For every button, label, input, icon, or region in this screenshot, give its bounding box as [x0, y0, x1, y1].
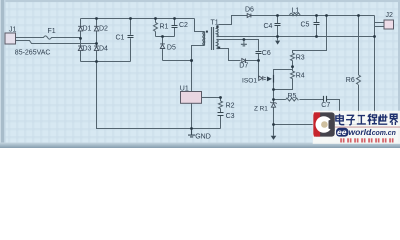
svg-text:C5: C5 — [301, 22, 310, 29]
svg-text:ISO1: ISO1 — [242, 78, 257, 85]
svg-text:C4: C4 — [264, 23, 273, 30]
svg-text:J1: J1 — [9, 27, 17, 34]
svg-text:C6: C6 — [262, 50, 271, 57]
svg-text:D3: D3 — [83, 46, 92, 53]
svg-text:R6: R6 — [346, 77, 355, 84]
svg-text:D5: D5 — [167, 44, 176, 51]
svg-text:ee: ee — [337, 127, 347, 137]
svg-text:D6: D6 — [245, 7, 254, 14]
svg-text:.com.cn: .com.cn — [370, 130, 396, 137]
svg-text:T1: T1 — [211, 19, 219, 26]
svg-text:U1: U1 — [180, 86, 189, 93]
svg-text:GND: GND — [195, 134, 211, 141]
svg-text:F1: F1 — [48, 28, 56, 35]
svg-text:R4: R4 — [296, 73, 305, 80]
svg-text:C2: C2 — [179, 22, 188, 29]
svg-text:R1: R1 — [160, 24, 169, 31]
svg-text:C1: C1 — [116, 35, 125, 42]
svg-text:R5: R5 — [288, 93, 297, 100]
svg-text:L1: L1 — [292, 8, 300, 15]
svg-text:D1: D1 — [83, 25, 92, 32]
svg-text:D2: D2 — [99, 25, 108, 32]
svg-text:D4: D4 — [99, 46, 108, 53]
svg-text:J2: J2 — [386, 12, 394, 19]
svg-text:Z R1: Z R1 — [254, 105, 268, 112]
svg-text:D7: D7 — [239, 62, 248, 69]
svg-text:R3: R3 — [296, 54, 305, 61]
svg-text:world: world — [348, 127, 372, 137]
svg-text:C3: C3 — [226, 113, 235, 120]
svg-text:R2: R2 — [226, 102, 235, 109]
svg-text:C7: C7 — [321, 102, 330, 109]
svg-text:85-265VAC: 85-265VAC — [15, 50, 51, 57]
